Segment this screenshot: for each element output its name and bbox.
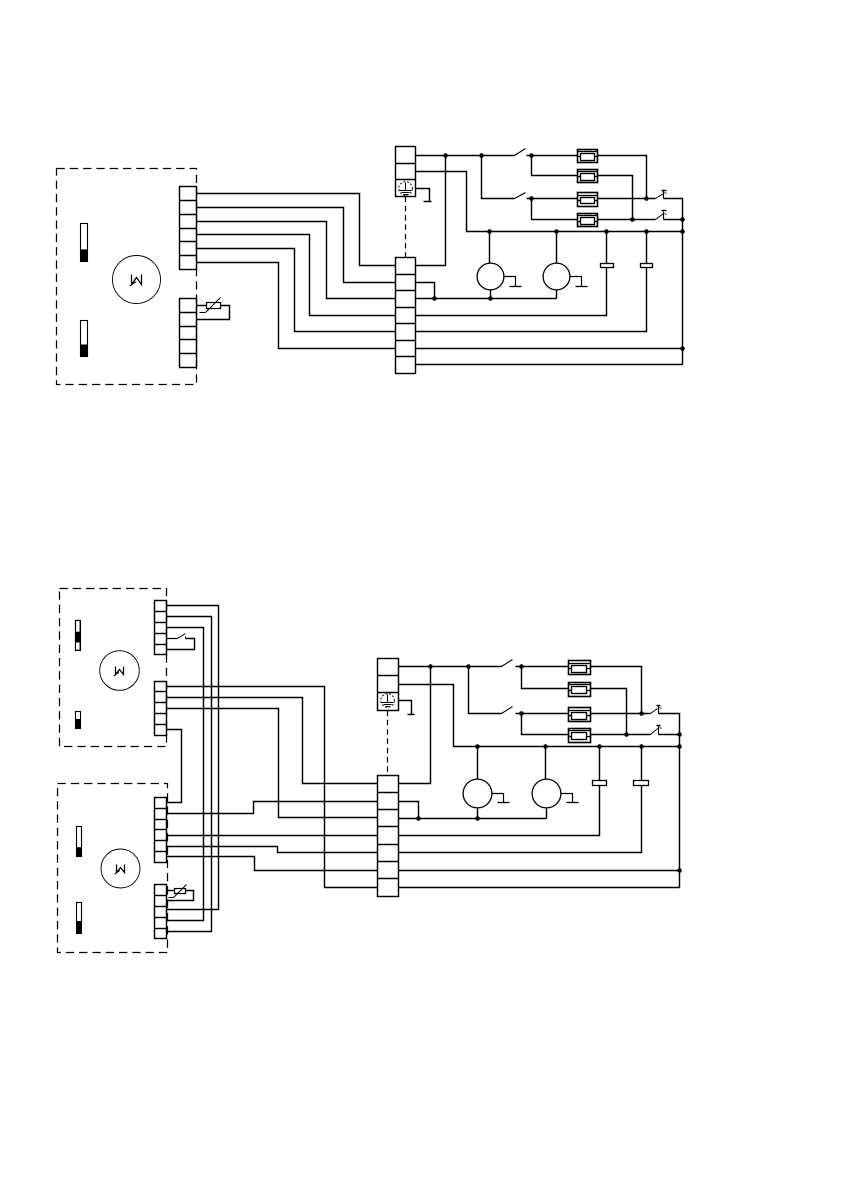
capacitor C2 [641, 264, 653, 268]
signal lamp H1 [477, 263, 504, 290]
capacitor C4 return to K3.5 [399, 786, 642, 853]
wire S4 to heater E7 [516, 713, 569, 715]
wire X1.2 to connector K1.2 [197, 208, 396, 283]
wire X1.6 to connector K1.6 [197, 263, 396, 349]
thermal cutout F2 [656, 214, 664, 220]
node K3.2/K3.3 [416, 816, 421, 821]
capacitor C3 [593, 781, 607, 786]
door switch SA loop to A1.5 [167, 639, 195, 650]
dashed PE link 2 [387, 711, 389, 776]
thermal cutout F4 [651, 729, 658, 735]
heating element E6 [569, 683, 591, 697]
capacitor C2 return to K1.5 [416, 268, 647, 332]
node bus-lamp4 [543, 744, 548, 749]
wire F1 out [664, 199, 683, 220]
main connector K3 (7 poles) [378, 776, 399, 897]
node bus end [680, 229, 685, 234]
capacitor C4 feed [641, 747, 643, 781]
node lamp3 return [475, 816, 480, 821]
heating element E5 [569, 661, 591, 675]
capacitor C3 feed [599, 747, 601, 781]
heating element E1 [578, 150, 598, 163]
heating element E8 [569, 729, 591, 743]
terminal strip A1 (5 poles) [155, 601, 167, 655]
lamp H1 feed [489, 232, 491, 264]
capacitor C1 return to K1.4 [416, 268, 607, 316]
wire X1.1 to connector K1.1 [197, 194, 396, 266]
node bus-cap1 [604, 229, 609, 234]
node K3.6/return [677, 868, 682, 873]
wire E2 right [598, 176, 633, 220]
node bus-cap2 [644, 229, 649, 234]
signal lamp H4 [532, 779, 561, 808]
wire E8 to thermal cutout F4 [591, 734, 651, 736]
door switch SA [167, 638, 178, 640]
lamp H2 return [556, 290, 558, 299]
node E1/E3 junction [644, 196, 649, 201]
lamp H3 return [477, 808, 479, 819]
wire S2 branch to heater E4 [532, 199, 578, 220]
node S2 out [529, 196, 534, 201]
motor M-B [101, 849, 140, 888]
wire X1.4 to connector K1.4 [197, 235, 396, 316]
node S1 out [529, 153, 534, 158]
node bus-cap3 [597, 744, 602, 749]
node S4 out [519, 711, 524, 716]
node E5/E7 junction [639, 711, 644, 716]
wire L1-b down to switch S2 [482, 156, 515, 199]
wire E1 right [598, 156, 647, 199]
chassis earth bar [424, 201, 432, 203]
terminal strip B1 (6 poles) [155, 798, 167, 863]
wire E7 to thermal cutout F3 [591, 713, 651, 715]
wire K3.6 to return [399, 870, 680, 872]
right return wire [682, 220, 684, 365]
lamp H3 feed [477, 747, 479, 779]
node bus-lamp1 [487, 229, 492, 234]
node K1.6/return [680, 346, 685, 351]
wire L1-b down to switch S4 [469, 667, 502, 714]
terminal strip B2 (5 poles) [155, 885, 167, 939]
node L1-a 2 [428, 664, 433, 669]
wire F3 out [659, 714, 680, 735]
heating element E3 [578, 193, 598, 207]
lamp H4 feed [545, 747, 547, 779]
thermal cutout F3 [651, 709, 658, 714]
wire E5 right [591, 667, 642, 714]
wire L1-a down to K1.1 [416, 156, 446, 266]
wire S1 branch to heater E2 [532, 156, 578, 176]
node K1.2/K1.3 [432, 296, 437, 301]
wire L1-a down to K3.1 [399, 667, 431, 784]
node bus-lamp2 [554, 229, 559, 234]
lamp H4 return [546, 808, 548, 819]
main connector K1 (7 poles) [396, 258, 416, 374]
wire thermistor loop to B2.2 [167, 891, 194, 901]
oven enclosure B (dashed outline) [58, 784, 168, 953]
node F4/N join [677, 732, 682, 737]
wire F4 out [659, 734, 680, 736]
appliance enclosure (dashed outline) [57, 169, 197, 385]
wire E6 right [591, 689, 627, 735]
heating element E4 [578, 214, 598, 227]
node E2/E4 junction [630, 217, 635, 222]
wire S3 branch to heater E6 [522, 667, 569, 689]
thermal fuse bar A2 [76, 712, 81, 729]
thermal cutout F1 [656, 194, 664, 199]
wire X1.5 to connector K1.5 [197, 249, 396, 332]
node bus-lamp3 [475, 744, 480, 749]
motor M1 [113, 256, 161, 304]
capacitor C2 feed [646, 232, 648, 264]
wire A1.1 down to B2.3 [167, 606, 219, 910]
wire B1.2 step to K3.2 [167, 802, 378, 814]
terminal strip A2 (5 poles) [155, 682, 167, 736]
wire K3.7 to return [399, 887, 680, 889]
chassis earth bar 2 [408, 714, 415, 716]
NTC thermistor R2 [175, 889, 186, 894]
switch S3 [502, 660, 513, 667]
wire F2 out [664, 219, 683, 221]
lamp H1 return [490, 290, 492, 299]
node S3 out [519, 664, 524, 669]
wire A2.1 to connector K3.7 [167, 687, 378, 888]
wire E4 to thermal cutout F2 [598, 219, 656, 221]
heating element E7 [569, 708, 591, 722]
neutral bus from K2.2 [416, 172, 683, 232]
capacitor C1 [601, 264, 614, 268]
wire X2.1 to thermistor [197, 305, 207, 307]
thermal fuse bar B1 [77, 827, 82, 857]
terminal strip X2 (5 poles) [180, 299, 197, 368]
switch S4 [502, 707, 513, 714]
mains terminal block K2 (3 poles) [396, 147, 416, 197]
wire K1.3 lamp return rail [416, 298, 557, 300]
earth wire to chassis [416, 189, 430, 202]
switch S2 [515, 193, 526, 199]
wire S1 to heater E1 [527, 155, 578, 157]
switch S1 [515, 149, 526, 156]
capacitor C4 [634, 781, 649, 786]
node lamp1 return [488, 296, 493, 301]
thermal fuse bar B2 [77, 903, 82, 934]
node L1-a [443, 153, 448, 158]
wire K1.2 step to K1.3 net [416, 283, 435, 299]
wire thermistor loop to X2.2 [197, 306, 230, 320]
wire K3.3 lamp return rail [399, 818, 547, 820]
wire E3 to thermal cutout F1 [598, 198, 656, 200]
wire A2.3 to connector K3.3 [167, 709, 378, 818]
wire S3 to heater E5 [516, 666, 569, 668]
wire K1.6 to return [416, 348, 683, 350]
signal lamp H3 [463, 779, 492, 808]
node bus-cap4 [639, 744, 644, 749]
node bus end 2 [677, 744, 682, 749]
wire B1.6 step to K3.6 [167, 857, 378, 871]
node L1-b 2 [466, 664, 471, 669]
NTC thermistor R1 [207, 303, 221, 309]
right return wire 2 [679, 735, 681, 888]
terminal strip X1 (6 poles) [180, 187, 197, 270]
thermal fuse bar A1 [76, 621, 81, 651]
wire X1.3 to connector K1.3 [197, 222, 396, 299]
wire A1.3 down to B2.4 [167, 628, 204, 921]
wire K1.7 to return [416, 364, 683, 366]
earth wire to chassis 2 [399, 701, 412, 715]
thermal fuse bar 2 [81, 321, 88, 357]
wire S2 to heater E3 [527, 198, 578, 200]
wire L1 feed 2 [399, 666, 502, 668]
wire K3.2 step to K3.3 net [399, 802, 419, 819]
wire A2.2 to connector K3.1 [167, 698, 378, 784]
wire A2.5 down to B1.1 [167, 730, 182, 803]
neutral bus from K4.2 [399, 685, 680, 747]
motor M-A [100, 651, 140, 691]
node L1-b [479, 153, 484, 158]
thermal fuse bar 1 [81, 224, 88, 262]
oven enclosure A (dashed outline) [60, 589, 167, 747]
dashed PE link [405, 197, 407, 258]
capacitor C1 feed [606, 232, 608, 264]
mains terminal block K4 (3 poles) [378, 659, 399, 711]
wire B1.5 step to K3.5 [167, 847, 378, 853]
wire L1 feed [416, 155, 515, 157]
heating element E2 [578, 170, 598, 183]
wire S4 branch to heater E8 [522, 714, 569, 735]
signal lamp H2 [543, 263, 570, 290]
node E6/E8 junction [624, 732, 629, 737]
wire B2.1 to thermistor [167, 890, 175, 892]
lamp H2 feed [556, 232, 558, 264]
protective earth symbol PE [399, 182, 413, 196]
wire B1.4 to K3.4 [167, 835, 378, 837]
protective earth symbol PE2 [381, 694, 395, 708]
wire A1.2 down to B2.5 [167, 617, 212, 932]
node F2/N join [680, 217, 685, 222]
capacitor C3 return to K3.4 [399, 786, 600, 836]
